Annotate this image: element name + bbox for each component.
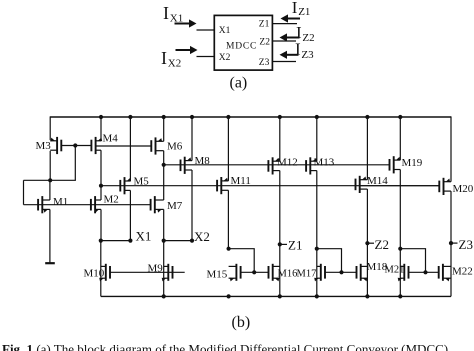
- wire M6 drain: [163, 117, 165, 141]
- transistor M10: [99, 264, 110, 282]
- transistor M14: [356, 176, 368, 193]
- wire Z3 output: [272, 61, 296, 63]
- wire M14-M20 gate continuation: [360, 185, 439, 187]
- wire M2 source: [100, 209, 102, 240]
- wire M1 M2 M7 gate line: [24, 204, 151, 206]
- wire M3 source down to node: [49, 151, 51, 180]
- svg-text:Z1: Z1: [298, 6, 310, 18]
- svg-text:Z2: Z2: [259, 38, 270, 48]
- node Z3 dot: [449, 241, 453, 245]
- node VSS dot M21: [398, 294, 402, 298]
- ground: [45, 262, 55, 264]
- wire M7 source: [163, 209, 165, 240]
- wire gate dot down: [74, 146, 76, 181]
- svg-text:I: I: [295, 40, 301, 59]
- label IX1: [163, 3, 183, 25]
- arrow IZ1: [281, 14, 301, 22]
- wire Z1 output: [272, 23, 297, 25]
- svg-text:M1: M1: [53, 196, 68, 208]
- node VSS dot M9: [162, 294, 166, 298]
- wire M11 source: [227, 190, 229, 248]
- wire X1: [101, 240, 131, 242]
- wire M21 diode loop: [400, 249, 425, 273]
- arrow IX1: [175, 19, 197, 27]
- wire X2 input: [197, 56, 215, 58]
- svg-text:M17: M17: [297, 269, 317, 280]
- svg-text:X1: X1: [219, 26, 231, 36]
- svg-text:Z2: Z2: [302, 32, 314, 44]
- wire Z3 tick: [451, 242, 458, 244]
- wire node row: [24, 179, 76, 181]
- wire bias line A (gates of M8 M12 M13 M19): [164, 164, 390, 166]
- svg-text:Z1: Z1: [288, 237, 302, 252]
- wire M17 diode loop: [317, 249, 342, 273]
- node M15 drain dot: [227, 247, 231, 251]
- svg-text:Z3: Z3: [301, 49, 314, 61]
- label IZ1: [292, 0, 311, 18]
- node VDD dot M4: [99, 115, 103, 119]
- wire M4-M6 gate: [96, 145, 151, 147]
- svg-text:X2: X2: [194, 229, 210, 244]
- svg-text:M8: M8: [195, 155, 211, 167]
- wire M14 drain: [366, 117, 368, 180]
- node VSS dot M16: [278, 294, 282, 298]
- node M1 drain dot: [48, 178, 52, 182]
- svg-text:M13: M13: [314, 157, 335, 169]
- wire M10 drain column: [100, 241, 102, 297]
- svg-text:M9: M9: [148, 263, 164, 275]
- svg-text:X2: X2: [168, 58, 181, 70]
- node M17 gate dot: [339, 270, 343, 274]
- wire M20 source / Z3 column: [450, 191, 452, 296]
- svg-text:M10: M10: [84, 268, 105, 280]
- svg-text:X1: X1: [170, 13, 183, 25]
- node M21 gate dot: [423, 270, 427, 274]
- wire M4 source: [100, 150, 102, 186]
- transistor M21: [398, 264, 409, 282]
- wire M15 gate to M16: [241, 271, 269, 273]
- svg-text:M16: M16: [278, 269, 298, 280]
- svg-text:M3: M3: [36, 140, 52, 152]
- transistor M9: [162, 264, 173, 282]
- wire M19 source / M21 column: [399, 170, 401, 297]
- node M3/M4 gate dot: [73, 143, 77, 147]
- svg-text:M22: M22: [452, 266, 473, 278]
- wire M11 drain: [227, 117, 229, 181]
- transistor M4: [91, 137, 102, 154]
- node VSS dot M18: [365, 294, 369, 298]
- svg-text:MDCC: MDCC: [226, 42, 257, 52]
- wire M8 drain: [191, 117, 193, 161]
- svg-text:M14: M14: [367, 175, 388, 187]
- wire M13 source / M17 column: [316, 171, 318, 297]
- label IZ3: [295, 40, 314, 62]
- wire M12 drain: [279, 117, 281, 161]
- wire M13 drain: [316, 117, 318, 161]
- node M6 source dot: [162, 163, 166, 167]
- transistor M6: [151, 137, 163, 154]
- svg-text:M19: M19: [402, 157, 423, 169]
- node VDD dot M11: [226, 115, 230, 119]
- wire M19 drain: [399, 117, 401, 160]
- wire M4 drain: [100, 117, 102, 141]
- node VDD dot M14: [365, 115, 369, 119]
- node VDD dot M6: [162, 115, 166, 119]
- node M15 gate dot: [252, 270, 256, 274]
- node X2 right dot: [190, 239, 194, 243]
- node VDD dot M13: [315, 115, 319, 119]
- MDCC block box: [214, 15, 272, 70]
- svg-text:M20: M20: [453, 183, 474, 195]
- wire M3-M4 gate: [61, 145, 91, 147]
- transistor M20: [439, 178, 451, 195]
- wire X2: [164, 240, 192, 242]
- wire M17 gate to M18: [325, 271, 357, 273]
- node VSS dot M15: [227, 294, 231, 298]
- wire M1 drain: [49, 180, 51, 200]
- wire M6 source: [163, 151, 165, 165]
- wire bias line B (gates of M5 M11 M14 M20): [101, 185, 439, 187]
- svg-text:Z3: Z3: [259, 58, 270, 68]
- svg-text:(b): (b): [232, 314, 251, 331]
- wire M15 diode loop: [229, 249, 255, 273]
- transistor M2: [91, 196, 101, 213]
- svg-text:Z2: Z2: [375, 237, 389, 252]
- arrow IZ3: [280, 51, 299, 59]
- svg-text:M12: M12: [277, 157, 298, 169]
- node M4 source dot: [99, 184, 103, 188]
- wire Z1 tick: [280, 243, 287, 245]
- transistor M11: [217, 177, 228, 194]
- label IZ2: [296, 23, 315, 44]
- svg-text:M5: M5: [134, 176, 150, 188]
- wire M8 source: [191, 170, 193, 241]
- transistor M18: [357, 264, 368, 282]
- wire rail left drop to M3: [49, 116, 51, 140]
- transistor M17: [314, 264, 325, 282]
- svg-text:M15: M15: [207, 269, 228, 281]
- node VDD dot M19: [398, 115, 402, 119]
- wire M2 drain: [100, 186, 102, 200]
- node VSS dot M17: [315, 294, 319, 298]
- transistor M8: [181, 157, 193, 174]
- node Z2 dot: [365, 241, 369, 245]
- transistor M12: [268, 157, 279, 174]
- svg-text:M7: M7: [167, 200, 183, 212]
- node X1 left dot: [99, 239, 103, 243]
- transistor M1: [38, 196, 50, 213]
- node X2 left dot: [162, 239, 166, 243]
- svg-text:M6: M6: [167, 141, 183, 153]
- VSS rail: [101, 295, 451, 297]
- wire M20 drain / rail right drop: [450, 116, 452, 181]
- transistor M13: [306, 157, 317, 174]
- transistor M15: [229, 264, 241, 282]
- node X1 right dot: [128, 239, 132, 243]
- svg-text:M4: M4: [103, 133, 119, 145]
- svg-text:I: I: [292, 0, 298, 17]
- node Z1 dot: [278, 242, 282, 246]
- arrow IX2: [176, 46, 198, 54]
- svg-text:M21: M21: [385, 265, 405, 276]
- wire left branch down: [23, 180, 25, 204]
- node VDD dot M5: [128, 115, 132, 119]
- wire M5 source: [129, 190, 131, 240]
- label IX2: [161, 48, 181, 70]
- wire M7 drain: [163, 165, 165, 200]
- transistor M7: [151, 196, 164, 213]
- svg-text:(a): (a): [230, 75, 248, 92]
- wire M21 gate to M22: [409, 271, 439, 273]
- svg-text:I: I: [163, 3, 169, 23]
- svg-text:Z1: Z1: [259, 19, 270, 29]
- node VDD dot M8: [190, 115, 194, 119]
- svg-text:Z3: Z3: [459, 237, 473, 252]
- wire M10-M9 gate line: [110, 271, 185, 273]
- transistor M19: [390, 156, 401, 173]
- svg-text:X1: X1: [136, 229, 152, 244]
- wire M5 drain: [129, 117, 131, 181]
- svg-text:I: I: [161, 48, 167, 68]
- wire X1 input: [197, 29, 215, 31]
- wire M9 drain column: [163, 241, 165, 297]
- wire M1 source: [49, 209, 51, 262]
- node M17 drain dot: [315, 247, 319, 251]
- transistor M16: [269, 264, 280, 282]
- wire Z2 output: [272, 40, 296, 42]
- arrow IZ2: [280, 33, 300, 41]
- wire Z2 tick: [367, 242, 374, 244]
- svg-text:M2: M2: [104, 194, 119, 206]
- svg-text:Fig. 1 (a) The block diagram o: Fig. 1 (a) The block diagram of the Modi…: [2, 342, 448, 351]
- svg-text:X2: X2: [219, 53, 231, 63]
- wire M12 source / Z1 column: [279, 171, 281, 297]
- transistor M3: [50, 137, 61, 154]
- svg-text:M11: M11: [231, 175, 251, 187]
- wire M14 source / Z2 column: [366, 189, 368, 296]
- node M21 drain dot: [398, 247, 402, 251]
- transistor M5: [120, 177, 131, 194]
- transistor M22: [439, 264, 451, 282]
- node VDD dot M12: [278, 115, 282, 119]
- VDD rail: [50, 116, 451, 118]
